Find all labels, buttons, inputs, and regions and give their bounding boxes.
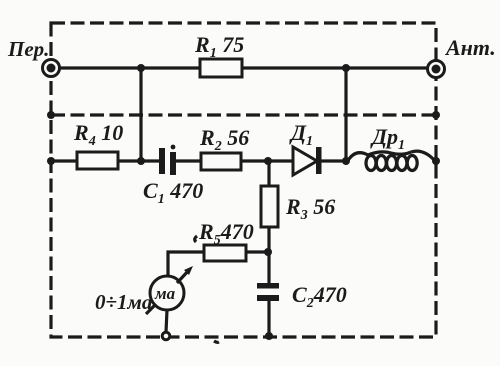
wire: top row from Пер. to Ант. (51, 66, 436, 69)
wire: node A down to R3 top (267, 161, 270, 188)
svg-text:Пер.: Пер. (7, 37, 49, 61)
resistor R1 (200, 59, 242, 77)
svg-text:R2 56: R2 56 (199, 125, 249, 154)
resistor R2 (201, 153, 241, 170)
wire: R3 bottom through node C to C2 (267, 227, 270, 284)
svg-text:Ант.: Ант. (444, 35, 496, 60)
svg-text:R3 56: R3 56 (285, 194, 335, 223)
capacitor C2 (257, 283, 279, 301)
capacitor C1 (159, 145, 176, 175)
junction shield left / partition (47, 111, 55, 119)
diode D1 (293, 147, 322, 175)
meter PA1 (ма) (150, 266, 193, 310)
junction node C (264, 248, 272, 256)
resistor R5 (204, 245, 246, 261)
wire: diode cathode to node B (318, 159, 348, 162)
inductor Dr1 (choke) (347, 151, 436, 170)
junction node B (342, 157, 350, 165)
wire: R5 left down to meter (168, 252, 204, 278)
resistor R3 (261, 186, 278, 227)
wire: row 2 middle segment (175, 159, 296, 162)
junction shield left / row2 (47, 157, 55, 165)
junction choke to shield right (432, 157, 440, 165)
junction C2 to shield bottom (265, 332, 273, 340)
wire: row 2 left segment (51, 159, 160, 162)
svg-text:0÷1ма: 0÷1ма (95, 290, 152, 314)
svg-text:R4 10: R4 10 (73, 120, 123, 149)
stray ink mark bottom (214, 341, 219, 342)
stray hook mark near R5 label (195, 236, 197, 242)
wire: R5 right to node C (246, 250, 269, 253)
junction node A (137, 157, 145, 165)
junction shield right / partition (432, 111, 440, 119)
terminal Ант. (428, 61, 445, 78)
svg-text:ма: ма (154, 284, 176, 303)
wire: meter bottom to chassis (166, 310, 167, 332)
terminal Пер. (43, 60, 60, 77)
svg-text:R5470: R5470 (198, 219, 254, 248)
junction at node A top (137, 64, 145, 72)
wire: drop from top row to node A (139, 68, 142, 161)
junction at node B top (342, 64, 350, 72)
leader line from label to meter (146, 304, 156, 314)
wire: drop from top row to node B (344, 68, 347, 161)
shield partition (dashed) (51, 113, 436, 116)
chassis terminal (open) on shield (162, 332, 170, 340)
wire: C2 bottom to shield (267, 301, 270, 336)
svg-text:C1 470: C1 470 (143, 178, 203, 207)
svg-text:C2470: C2470 (292, 282, 347, 311)
resistor R4 (77, 152, 118, 169)
junction R2-R3 node (264, 157, 272, 165)
shield enclosure (dashed screen box) (51, 23, 436, 337)
svg-text:R1 75: R1 75 (194, 32, 244, 61)
